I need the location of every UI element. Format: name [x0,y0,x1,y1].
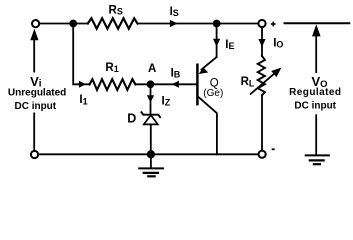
svg-text:Regulated: Regulated [289,87,341,98]
wire zener to bottom rail [150,124,152,154]
terminal bottom-right [259,151,266,158]
svg-text:A: A [148,63,156,75]
zener diode D triangle [144,115,158,124]
svg-text:DC input: DC input [294,101,336,112]
terminal top-left [32,20,39,27]
svg-text:IZ: IZ [162,96,171,108]
wire left branch down from node to R1 [73,24,90,85]
svg-text:IE: IE [225,39,234,51]
wire RL to bottom right terminal [261,95,263,150]
wire emitter feed down from top junction [216,24,218,58]
minus sign at output [272,148,275,150]
wire top rail right segment [138,23,259,25]
svg-text:I1: I1 [79,94,87,106]
current arrow IE [213,39,220,47]
wire bottom rail [38,153,258,155]
svg-text:R1: R1 [105,62,118,74]
svg-text:Unregulated: Unregulated [8,88,66,99]
current arrow IB [172,81,180,88]
wire node A to transistor base [135,83,196,85]
node junction dot top-right [213,20,221,28]
svg-text:RL: RL [241,76,255,88]
transistor Q emitter arrowhead [199,67,209,74]
ground symbol right [305,155,330,164]
current arrow IZ [147,95,154,102]
svg-text:(Ge): (Ge) [203,88,223,99]
current arrow IS [170,20,178,27]
node junction dot top-left [69,20,77,28]
current arrow I1 [79,81,86,88]
wire emitter diagonal of Q [202,57,217,70]
transistor Q collector [197,96,217,154]
terminal top-right [258,20,265,27]
resistor RL (variable) [258,56,265,95]
resistor R1 [90,79,136,90]
current arrow IO [258,39,265,47]
svg-text:RS: RS [109,5,123,17]
variable resistor RL arrow [250,73,276,95]
terminal bottom-left [31,151,38,158]
svg-text:DC input: DC input [14,101,56,112]
node junction dot bottom rail [147,150,155,158]
transistor Q base bar [196,64,199,106]
svg-text:D: D [127,111,136,125]
svg-text:IB: IB [171,68,181,80]
wire top rail left segment [39,23,88,25]
output reference line [284,22,351,24]
Vo voltage arrow [312,24,321,155]
zener diode D cathode bar [141,111,161,118]
plus sign at output [271,22,276,27]
Vi voltage arrow [30,29,38,151]
wire output terminal down to RL [261,27,263,56]
svg-text:IO: IO [273,38,283,50]
node A junction dot [147,80,155,88]
svg-text:IS: IS [170,6,179,18]
wire node A down to zener [150,84,152,114]
resistor RS [88,18,138,28]
ground symbol center [138,154,164,176]
